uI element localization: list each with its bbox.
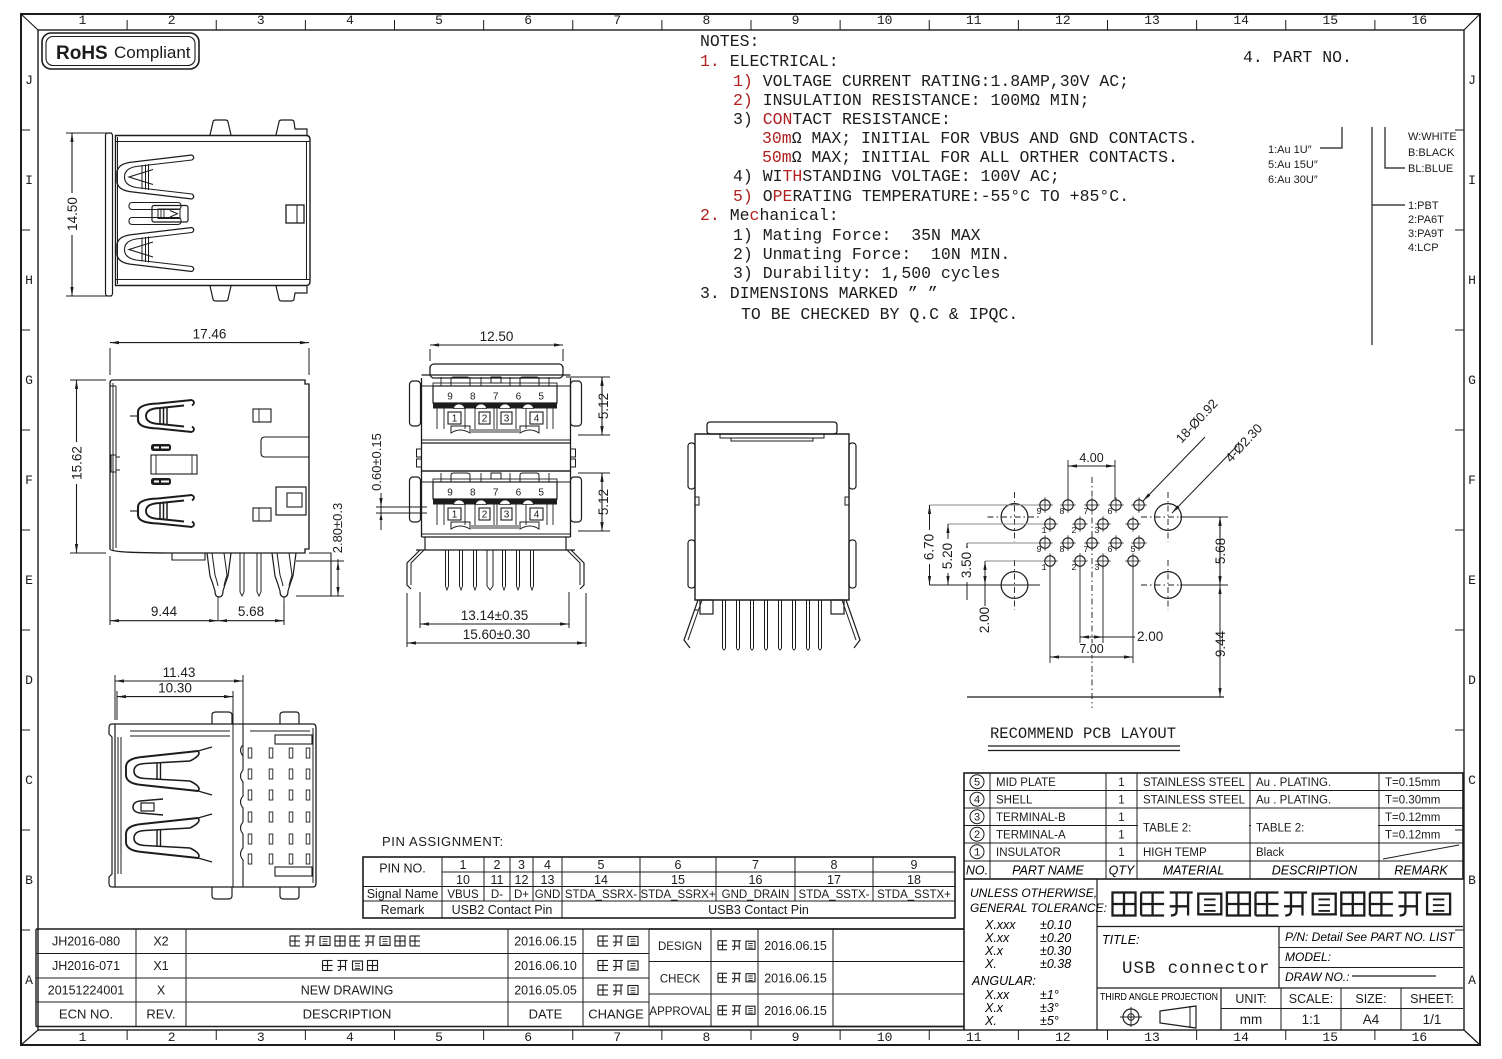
side wing right <box>571 550 584 589</box>
svg-text:TERMINAL-A: TERMINAL-A <box>996 830 1066 842</box>
latch hole <box>286 205 304 223</box>
svg-text:D+: D+ <box>514 889 529 901</box>
top tabs <box>212 712 232 724</box>
svg-text:X.xx: X.xx <box>984 988 1010 1002</box>
svg-text:APPROVAL: APPROVAL <box>649 1006 711 1018</box>
svg-text:B: B <box>1468 873 1476 888</box>
svg-text:±0.38: ±0.38 <box>1040 957 1071 971</box>
svg-text:5: 5 <box>974 778 981 790</box>
right tail block <box>309 553 331 561</box>
svg-text:1) Mating Force: 35N MAX: 1) Mating Force: 35N MAX <box>733 226 981 245</box>
svg-text:NEW DRAWING: NEW DRAWING <box>301 984 394 998</box>
svg-text:2: 2 <box>482 510 488 521</box>
svg-text:9: 9 <box>792 1030 800 1045</box>
svg-text:2) INSULATION RESISTANCE: 100M: 2) INSULATION RESISTANCE: 100MΩ MIN; <box>733 91 1089 110</box>
mounting tab <box>210 120 231 135</box>
svg-text:SIZE:: SIZE: <box>1355 992 1386 1006</box>
svg-text:2: 2 <box>168 1030 176 1045</box>
svg-text:X.: X. <box>984 1014 997 1028</box>
svg-text:REV.: REV. <box>146 1007 175 1022</box>
svg-text:16: 16 <box>1412 1030 1428 1045</box>
svg-text:6: 6 <box>524 1030 532 1045</box>
svg-text:11: 11 <box>966 13 982 28</box>
svg-text:INSULATOR: INSULATOR <box>996 847 1061 859</box>
svg-text:F: F <box>25 473 33 488</box>
svg-text:JH2016-080: JH2016-080 <box>52 935 120 949</box>
svg-text:4.00: 4.00 <box>1079 451 1103 465</box>
right notch <box>261 437 309 457</box>
base block <box>424 537 426 550</box>
svg-text:16: 16 <box>1412 13 1428 28</box>
svg-text:1: 1 <box>79 1030 87 1045</box>
svg-text:X.x: X.x <box>984 944 1004 958</box>
svg-text:1/1: 1/1 <box>1423 1012 1442 1027</box>
svg-text:13: 13 <box>541 873 555 887</box>
middle contact block <box>151 444 171 451</box>
projection cell <box>1220 988 1222 1030</box>
svg-text:2) Unmating Force: 10N MIN.: 2) Unmating Force: 10N MIN. <box>733 245 1010 264</box>
svg-text:Signal Name: Signal Name <box>367 887 439 901</box>
svg-text:9: 9 <box>447 392 453 403</box>
svg-text:8: 8 <box>1059 545 1064 555</box>
spring lower <box>138 495 192 527</box>
svg-text:2: 2 <box>1071 563 1076 573</box>
svg-text:0.60±0.15: 0.60±0.15 <box>369 433 384 491</box>
dimension 2.00 bottom <box>1080 636 1103 638</box>
leader 18-0.92 <box>1143 437 1205 501</box>
svg-text:7.00: 7.00 <box>1079 642 1103 656</box>
contact slot grid <box>248 748 252 758</box>
svg-text:2: 2 <box>482 414 488 425</box>
spring contact upper <box>117 155 192 199</box>
wing right <box>846 600 860 648</box>
svg-text:20151224001: 20151224001 <box>48 984 125 998</box>
svg-text:3.50: 3.50 <box>959 552 974 578</box>
svg-text:1: 1 <box>1118 812 1124 824</box>
svg-text:USB connector: USB connector <box>1122 959 1270 979</box>
svg-text:CHECK: CHECK <box>660 973 701 985</box>
dimension 11.43 <box>114 675 116 720</box>
springs left <box>126 751 198 791</box>
svg-text:6: 6 <box>524 13 532 28</box>
pn/model/draw cells <box>1279 947 1463 949</box>
svg-text:2016.05.05: 2016.05.05 <box>514 984 577 998</box>
svg-text:STDA_SSRX-: STDA_SSRX- <box>565 889 637 901</box>
svg-text:1: 1 <box>1118 777 1124 789</box>
svg-text:THIRD ANGLE PROJECTION: THIRD ANGLE PROJECTION <box>1100 992 1218 1003</box>
svg-text:15: 15 <box>1323 1030 1339 1045</box>
svg-text:3) Durability: 1,500 cycles: 3) Durability: 1,500 cycles <box>733 264 1000 283</box>
right hole lower <box>253 508 271 521</box>
svg-text:SHEET:: SHEET: <box>1410 992 1454 1006</box>
svg-text:±0.10: ±0.10 <box>1040 918 1071 932</box>
svg-text:A: A <box>25 973 33 988</box>
svg-text:J: J <box>25 73 33 88</box>
left clip bump <box>111 455 116 472</box>
svg-text:9.44: 9.44 <box>1213 630 1228 657</box>
svg-text:6:Au 30U″: 6:Au 30U″ <box>1268 174 1318 186</box>
svg-text:±0.20: ±0.20 <box>1040 931 1071 945</box>
middle clip <box>133 799 163 815</box>
svg-text:10: 10 <box>877 13 893 28</box>
dimension 14.50 <box>66 132 112 134</box>
title block <box>963 879 965 1030</box>
spring upper <box>138 400 192 432</box>
RoHS Compliant logo <box>42 33 199 69</box>
right top bar <box>275 735 312 744</box>
svg-text:6.70: 6.70 <box>922 534 937 560</box>
svg-text:17.46: 17.46 <box>193 327 227 342</box>
svg-text:ECN NO.: ECN NO. <box>59 1007 113 1022</box>
svg-text:10: 10 <box>877 1030 893 1045</box>
svg-text:9: 9 <box>792 13 800 28</box>
svg-text:2.00: 2.00 <box>1137 629 1163 644</box>
svg-text:10: 10 <box>456 873 470 887</box>
svg-text:Compliant: Compliant <box>114 43 191 62</box>
svg-text:5: 5 <box>538 488 544 499</box>
upper port <box>422 374 571 376</box>
svg-text:11: 11 <box>966 1030 982 1045</box>
svg-text:JH2016-071: JH2016-071 <box>52 959 120 973</box>
svg-text:TO BE CHECKED BY Q.C & IPQC.: TO BE CHECKED BY Q.C & IPQC. <box>741 305 1018 324</box>
svg-text:9: 9 <box>1036 507 1041 517</box>
svg-text:2:PA6T: 2:PA6T <box>1408 214 1444 226</box>
svg-text:G: G <box>1468 373 1476 388</box>
svg-text:X.xx: X.xx <box>984 931 1010 945</box>
dimension 15.60±0.30 <box>406 593 408 647</box>
pin holes row 2 (1-4) <box>1045 519 1055 529</box>
svg-text:D: D <box>1468 673 1476 688</box>
pins <box>445 550 447 586</box>
lower port <box>422 470 571 472</box>
svg-text:GND: GND <box>535 889 561 901</box>
svg-text:TITLE:: TITLE: <box>1102 933 1140 947</box>
svg-text:1: 1 <box>1118 847 1124 859</box>
ears <box>688 443 695 489</box>
svg-text:7: 7 <box>1083 545 1088 555</box>
svg-text:±5°: ±5° <box>1040 1014 1059 1028</box>
svg-text:8: 8 <box>703 1030 711 1045</box>
bottom corner blocks <box>700 600 713 614</box>
svg-text:USB3 Contact Pin: USB3 Contact Pin <box>708 903 809 917</box>
svg-text:1: 1 <box>1118 830 1124 842</box>
svg-text:12.50: 12.50 <box>480 329 514 344</box>
svg-text:8: 8 <box>831 858 838 872</box>
svg-text:STDA_SSTX-: STDA_SSTX- <box>799 889 870 901</box>
svg-text:13: 13 <box>1144 1030 1160 1045</box>
svg-text:4: 4 <box>974 795 981 807</box>
svg-text:15: 15 <box>1323 13 1339 28</box>
projection symbol <box>1123 1009 1139 1025</box>
svg-text:15.62: 15.62 <box>70 446 85 480</box>
right hole upper <box>253 409 271 422</box>
shell body <box>116 136 311 286</box>
svg-text:Remark: Remark <box>381 903 426 917</box>
svg-text:CHANGE: CHANGE <box>588 1007 644 1022</box>
body <box>695 434 849 600</box>
svg-text:10.30: 10.30 <box>158 681 192 696</box>
svg-text:14.50: 14.50 <box>65 197 80 231</box>
svg-text:MATERIAL: MATERIAL <box>1163 864 1225 878</box>
svg-text:6: 6 <box>1107 545 1112 555</box>
svg-text:2.80±0.3: 2.80±0.3 <box>330 503 345 554</box>
svg-text:ANGULAR:: ANGULAR: <box>971 974 1036 988</box>
pin holes row 4 (1-4) <box>1045 556 1055 566</box>
svg-text:3: 3 <box>504 510 510 521</box>
right edge inner <box>312 728 314 883</box>
svg-text:A4: A4 <box>1363 1012 1380 1027</box>
svg-text:7: 7 <box>493 488 499 499</box>
svg-text:DATE: DATE <box>529 1007 563 1022</box>
svg-text:B: B <box>25 873 33 888</box>
svg-text:X: X <box>157 984 166 998</box>
spring contact lower <box>117 228 192 272</box>
mounting tab <box>210 286 231 301</box>
svg-text:7: 7 <box>613 1030 621 1045</box>
svg-text:J: J <box>1468 73 1476 88</box>
dimension 17.46 <box>109 348 111 375</box>
center spring contact <box>129 203 181 210</box>
svg-text:D: D <box>25 673 33 688</box>
svg-text:W:WHITE: W:WHITE <box>1408 131 1457 143</box>
svg-text:PIN ASSIGNMENT:: PIN ASSIGNMENT: <box>382 834 504 849</box>
svg-text:2016.06.15: 2016.06.15 <box>764 1004 827 1018</box>
svg-text:4. PART NO.: 4. PART NO. <box>1243 48 1352 67</box>
svg-text:I: I <box>25 173 33 188</box>
svg-text:2016.06.15: 2016.06.15 <box>764 971 827 985</box>
svg-text:6: 6 <box>516 488 522 499</box>
mounting tab <box>276 286 307 301</box>
svg-text:4:LCP: 4:LCP <box>1408 242 1439 254</box>
svg-text:T=0.12mm: T=0.12mm <box>1385 812 1440 824</box>
svg-text:H: H <box>1468 273 1476 288</box>
svg-text:13.14±0.35: 13.14±0.35 <box>461 608 528 623</box>
mounting tab <box>276 120 307 135</box>
svg-text:1:PBT: 1:PBT <box>1408 200 1439 212</box>
svg-text:±0.30: ±0.30 <box>1040 944 1071 958</box>
svg-text:DESCRIPTION: DESCRIPTION <box>303 1007 392 1022</box>
bottom foot plate <box>172 553 205 560</box>
svg-text:X.x: X.x <box>984 1001 1004 1015</box>
svg-text:1: 1 <box>974 848 981 860</box>
dimension 13.14±0.35 <box>419 592 421 628</box>
svg-text:5: 5 <box>538 392 544 403</box>
svg-text:RECOMMEND PCB LAYOUT: RECOMMEND PCB LAYOUT <box>990 725 1176 743</box>
svg-text:STAINLESS STEEL: STAINLESS STEEL <box>1143 795 1246 807</box>
svg-text:USB2 Contact Pin: USB2 Contact Pin <box>452 903 553 917</box>
flange <box>109 724 115 887</box>
svg-text:±3°: ±3° <box>1040 1001 1059 1015</box>
svg-text:1: 1 <box>79 13 87 28</box>
top cap <box>430 364 563 378</box>
dimension 12.50 <box>429 349 431 361</box>
svg-text:14: 14 <box>1233 13 1249 28</box>
svg-text:11: 11 <box>491 873 504 887</box>
svg-text:5: 5 <box>435 13 443 28</box>
svg-text:6: 6 <box>516 392 522 403</box>
svg-text:3: 3 <box>257 1030 265 1045</box>
svg-text:D-: D- <box>491 889 503 901</box>
svg-text:1. ELECTRICAL:: 1. ELECTRICAL: <box>700 52 839 71</box>
svg-text:STDA_SSRX+: STDA_SSRX+ <box>640 889 715 901</box>
top cap <box>707 422 837 434</box>
svg-text:PIN NO.: PIN NO. <box>379 862 426 876</box>
svg-text:7: 7 <box>493 392 499 403</box>
dimension 5.20 <box>947 524 949 585</box>
svg-text:QTY: QTY <box>1109 864 1136 878</box>
svg-text:2: 2 <box>974 830 981 842</box>
dimension 9.44 / 5.68 <box>109 556 111 625</box>
svg-text:X2: X2 <box>153 935 168 949</box>
svg-text:Au . PLATING.: Au . PLATING. <box>1256 777 1331 789</box>
parts list table <box>964 773 1463 879</box>
svg-text:TABLE 2:: TABLE 2: <box>1256 823 1304 835</box>
svg-text:4: 4 <box>534 510 540 521</box>
svg-text:H: H <box>25 273 33 288</box>
svg-text:1: 1 <box>1041 526 1046 536</box>
svg-text:5: 5 <box>598 858 605 872</box>
dimension 6.70 <box>929 505 931 585</box>
dimension 10.30 <box>116 691 118 720</box>
approval block <box>649 928 964 930</box>
svg-text:18: 18 <box>907 873 921 887</box>
dimension 5.12 upper <box>566 376 610 378</box>
extension lines down <box>1049 567 1051 663</box>
svg-text:2: 2 <box>494 858 501 872</box>
svg-text:5.68: 5.68 <box>1213 538 1228 564</box>
revision table <box>36 928 964 930</box>
svg-text:GENERAL TOLERANCE:: GENERAL TOLERANCE: <box>970 901 1107 915</box>
svg-text:1: 1 <box>452 510 458 521</box>
svg-text:1: 1 <box>1041 563 1046 573</box>
side wing left <box>407 550 420 589</box>
svg-text:15: 15 <box>671 873 685 887</box>
svg-text:VBUS: VBUS <box>447 889 479 901</box>
svg-text:X.: X. <box>984 957 997 971</box>
svg-text:F: F <box>1468 473 1476 488</box>
svg-text:7: 7 <box>613 13 621 28</box>
svg-text:2: 2 <box>168 13 176 28</box>
svg-text:6: 6 <box>675 858 682 872</box>
middle band <box>421 443 423 471</box>
svg-text:T=0.15mm: T=0.15mm <box>1385 777 1440 789</box>
svg-text:B:BLACK: B:BLACK <box>1408 147 1455 159</box>
svg-text:5.68: 5.68 <box>238 604 264 619</box>
svg-text:A: A <box>1468 973 1476 988</box>
svg-text:NOTES:: NOTES: <box>700 32 759 51</box>
divider zigzag <box>241 724 244 887</box>
flange plate <box>106 133 113 296</box>
svg-text:5.12: 5.12 <box>596 489 611 515</box>
svg-text:3: 3 <box>1094 526 1099 536</box>
svg-text:9: 9 <box>1036 545 1041 555</box>
side notches <box>695 497 699 505</box>
svg-text:16: 16 <box>749 873 763 887</box>
svg-text:5.20: 5.20 <box>940 543 955 569</box>
dimension 5.12 lower <box>578 472 610 474</box>
dimension 15.62 <box>70 379 106 381</box>
svg-text:C: C <box>25 773 33 788</box>
svg-text:4: 4 <box>544 858 551 872</box>
dimension 5.68 right <box>1180 516 1228 518</box>
svg-text:Au . PLATING.: Au . PLATING. <box>1256 795 1331 807</box>
svg-text:G: G <box>25 373 33 388</box>
svg-text:Black: Black <box>1256 847 1284 859</box>
svg-text:MID PLATE: MID PLATE <box>996 777 1056 789</box>
svg-text:14: 14 <box>594 873 608 887</box>
svg-text:8: 8 <box>1059 507 1064 517</box>
svg-text:UNIT:: UNIT: <box>1235 992 1266 1006</box>
left reference lines <box>930 504 1040 506</box>
material tree lines <box>1371 127 1373 345</box>
svg-text:11.43: 11.43 <box>163 665 196 680</box>
mounting holes <box>1001 504 1028 531</box>
svg-text:12: 12 <box>1055 13 1071 28</box>
svg-text:HIGH TEMP: HIGH TEMP <box>1143 847 1207 859</box>
svg-text:TERMINAL-B: TERMINAL-B <box>996 812 1066 824</box>
svg-text:NO.: NO. <box>966 864 988 878</box>
svg-text:C: C <box>1468 773 1476 788</box>
svg-text:2016.06.10: 2016.06.10 <box>514 959 577 973</box>
bottom tabs <box>212 887 232 899</box>
svg-text:GND_DRAIN: GND_DRAIN <box>722 889 790 901</box>
svg-text:3: 3 <box>1094 563 1099 573</box>
svg-text:PART NAME: PART NAME <box>1012 864 1084 878</box>
dimension 2.80±0.3 <box>331 560 344 562</box>
leader 4-2.30 <box>1172 446 1237 513</box>
svg-text:DESIGN: DESIGN <box>658 941 702 953</box>
svg-text:DESCRIPTION: DESCRIPTION <box>1272 864 1358 878</box>
svg-text:BL:BLUE: BL:BLUE <box>1408 163 1453 175</box>
svg-text:5: 5 <box>435 1030 443 1045</box>
svg-text:7: 7 <box>1083 507 1088 517</box>
svg-text:3: 3 <box>504 414 510 425</box>
svg-text:REMARK: REMARK <box>1394 864 1448 878</box>
svg-text:2: 2 <box>1071 526 1076 536</box>
pcb edge line <box>967 696 1224 698</box>
wing left <box>684 600 698 648</box>
svg-text:X.xxx: X.xxx <box>984 918 1016 932</box>
svg-text:1: 1 <box>452 414 458 425</box>
svg-text:±1°: ±1° <box>1040 988 1059 1002</box>
unit scale size sheet <box>1280 988 1282 1030</box>
svg-text:1: 1 <box>460 858 467 872</box>
svg-text:15.60±0.30: 15.60±0.30 <box>463 627 530 642</box>
svg-text:3: 3 <box>974 813 981 825</box>
leg left <box>207 553 231 597</box>
company name (CJK) <box>1097 926 1463 928</box>
svg-text:mm: mm <box>1240 1012 1263 1027</box>
svg-text:6: 6 <box>1107 507 1112 517</box>
svg-text:TABLE 2:: TABLE 2: <box>1143 823 1191 835</box>
svg-text:1: 1 <box>1118 795 1124 807</box>
svg-text:SHELL: SHELL <box>996 795 1033 807</box>
svg-text:STAINLESS STEEL: STAINLESS STEEL <box>1143 777 1246 789</box>
svg-text:9.44: 9.44 <box>151 604 178 619</box>
svg-text:5) OPERATING TEMPERATURE:-55°C: 5) OPERATING TEMPERATURE:-55°C TO +85°C. <box>733 187 1129 206</box>
svg-text:8: 8 <box>703 13 711 28</box>
dimension 9.44 right <box>1219 585 1221 697</box>
svg-text:P/N: Detail See PART NO. LIST: P/N: Detail See PART NO. LIST <box>1285 930 1456 944</box>
svg-text:3) CONTACT RESISTANCE:: 3) CONTACT RESISTANCE: <box>733 110 951 129</box>
svg-text:1:1: 1:1 <box>1302 1012 1321 1027</box>
svg-text:4: 4 <box>346 13 354 28</box>
svg-text:RoHS: RoHS <box>56 43 108 64</box>
svg-text:STDA_SSTX+: STDA_SSTX+ <box>877 889 951 901</box>
thin pins <box>239 553 241 592</box>
insulator remark diagonal <box>1383 845 1459 859</box>
svg-text:SCALE:: SCALE: <box>1289 992 1333 1006</box>
